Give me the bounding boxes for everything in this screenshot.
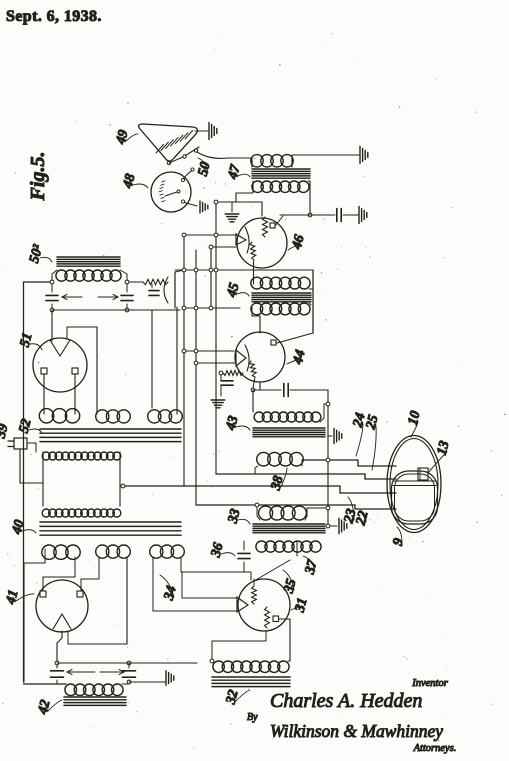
svg-text:Wilkinson & Mawhinney: Wilkinson & Mawhinney	[270, 721, 443, 741]
svg-text:Attorneys.: Attorneys.	[413, 743, 457, 754]
svg-text:Sept. 6, 1938.: Sept. 6, 1938.	[6, 8, 102, 25]
svg-text:Inventor: Inventor	[411, 678, 448, 689]
svg-text:Fig.5.: Fig.5.	[27, 152, 49, 202]
svg-text:By: By	[247, 712, 258, 723]
svg-text:Charles A. Hedden: Charles A. Hedden	[270, 690, 422, 712]
